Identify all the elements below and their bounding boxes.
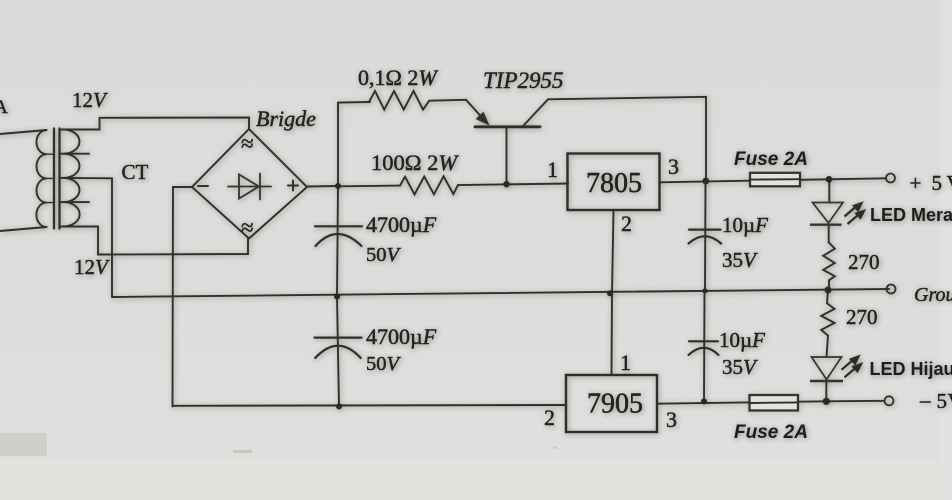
svg-text:35V: 35V bbox=[722, 355, 758, 379]
svg-text:3: 3 bbox=[666, 407, 677, 432]
svg-text:12V: 12V bbox=[74, 255, 110, 279]
svg-text:V: V bbox=[947, 171, 952, 195]
svg-text:4700µF: 4700µF bbox=[366, 212, 437, 237]
svg-text:100Ω 2W: 100Ω 2W bbox=[371, 150, 459, 175]
svg-text:5: 5 bbox=[937, 389, 948, 413]
svg-text:V: V bbox=[948, 389, 952, 413]
svg-text:270: 270 bbox=[848, 250, 880, 274]
svg-text:Fuse 2A: Fuse 2A bbox=[734, 149, 808, 170]
svg-text:Ground: Ground bbox=[914, 284, 952, 306]
svg-text:7905: 7905 bbox=[587, 389, 643, 420]
svg-text:10µF: 10µF bbox=[722, 213, 768, 237]
svg-text:1: 1 bbox=[620, 350, 631, 375]
svg-text:3: 3 bbox=[668, 154, 679, 179]
svg-text:50V: 50V bbox=[366, 353, 402, 375]
svg-text:≈: ≈ bbox=[241, 215, 254, 240]
svg-text:1: 1 bbox=[547, 157, 558, 182]
svg-text:0,1Ω 2W: 0,1Ω 2W bbox=[358, 65, 438, 90]
svg-text:+: + bbox=[910, 171, 922, 195]
svg-text:A: A bbox=[0, 97, 8, 118]
svg-text:Fuse 2A: Fuse 2A bbox=[734, 422, 808, 443]
svg-text:Brigde: Brigde bbox=[256, 106, 316, 131]
svg-text:LED Hijau: LED Hijau bbox=[870, 359, 952, 379]
svg-text:5: 5 bbox=[932, 171, 943, 195]
svg-text:12V: 12V bbox=[72, 88, 108, 112]
svg-text:7805: 7805 bbox=[586, 168, 642, 199]
svg-text:≈: ≈ bbox=[241, 131, 254, 156]
svg-text:50V: 50V bbox=[366, 244, 402, 266]
svg-text:CT: CT bbox=[122, 160, 149, 184]
svg-text:–: – bbox=[919, 388, 931, 412]
svg-text:LED Merah: LED Merah bbox=[870, 205, 952, 225]
svg-text:270: 270 bbox=[846, 305, 878, 329]
svg-text:2: 2 bbox=[544, 405, 555, 430]
svg-text:2: 2 bbox=[621, 211, 632, 236]
svg-text:35V: 35V bbox=[722, 248, 758, 272]
svg-text:TIP2955: TIP2955 bbox=[483, 68, 564, 93]
svg-text:10µF: 10µF bbox=[719, 328, 765, 352]
svg-text:4700µF: 4700µF bbox=[366, 324, 437, 349]
